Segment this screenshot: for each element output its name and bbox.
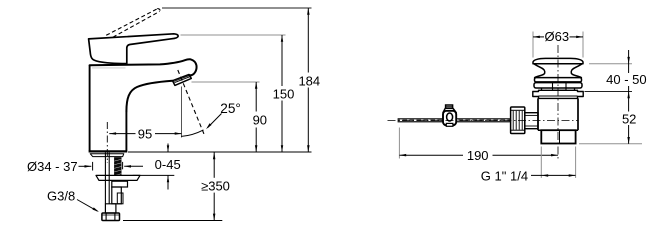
svg-text:52: 52	[622, 112, 636, 127]
svg-text:184: 184	[298, 74, 320, 89]
svg-text:G 1" 1/4: G 1" 1/4	[481, 168, 528, 183]
svg-text:95: 95	[138, 127, 152, 142]
svg-text:90: 90	[253, 113, 267, 128]
svg-text:Ø63: Ø63	[545, 29, 570, 44]
svg-text:≥350: ≥350	[201, 178, 230, 193]
svg-text:25°: 25°	[220, 101, 241, 116]
svg-text:190: 190	[467, 148, 489, 163]
svg-text:40 - 50: 40 - 50	[606, 72, 646, 87]
svg-text:G3/8: G3/8	[47, 188, 75, 203]
svg-text:150: 150	[273, 87, 295, 102]
svg-text:Ø34 - 37: Ø34 - 37	[27, 159, 78, 174]
svg-text:0-45: 0-45	[155, 157, 181, 172]
